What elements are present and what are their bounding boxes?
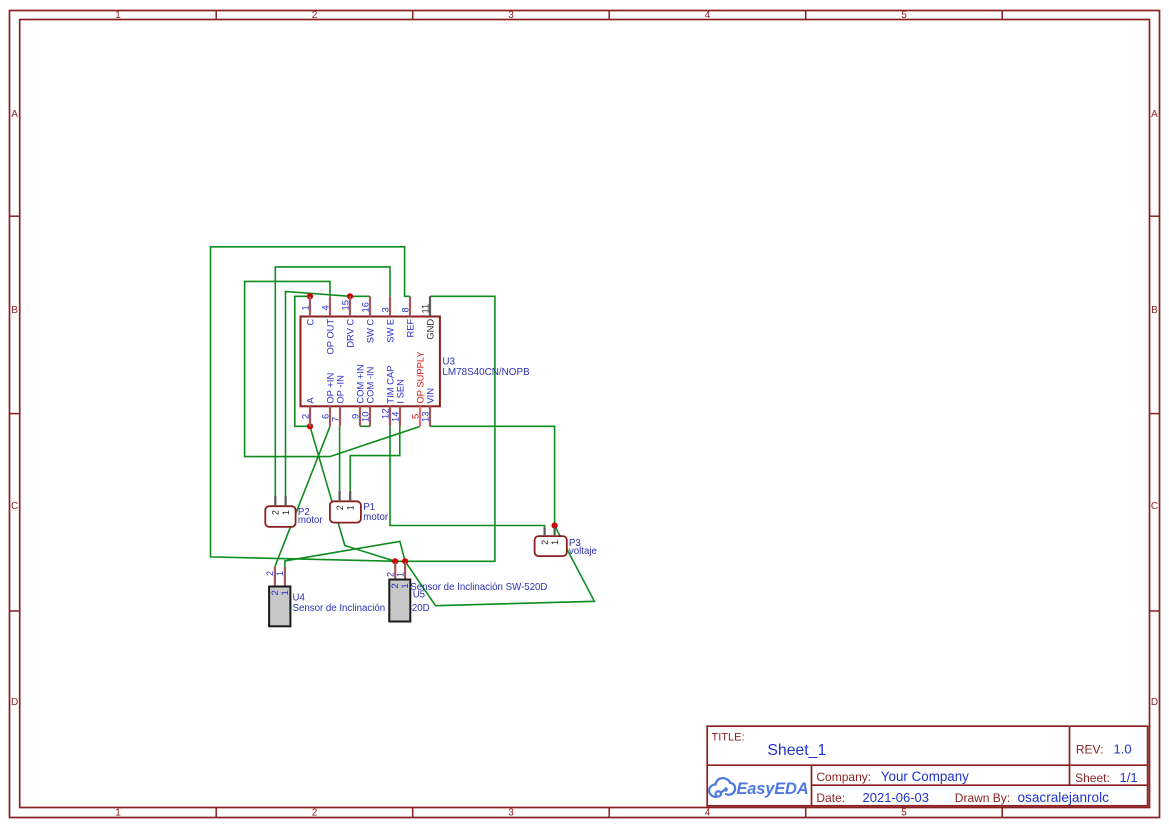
svg-text:5: 5 <box>901 10 907 21</box>
wire net pin8: big outer loop from pin 8 to U5 area <box>211 247 410 562</box>
svg-text:D: D <box>1151 697 1158 708</box>
P3 pin 2 stub <box>543 527 545 536</box>
svg-text:TITLE:: TITLE: <box>712 732 745 744</box>
frame row ticks right <box>1150 216 1160 611</box>
svg-text:U4: U4 <box>293 593 306 604</box>
svg-text:2: 2 <box>335 505 345 510</box>
U3 pin 10 stub (bottom) <box>369 406 371 426</box>
junction at U5 pin 1 <box>402 558 408 564</box>
sensor U5 pin 1 stub <box>404 562 406 579</box>
title block logo cell divider <box>811 765 813 806</box>
svg-text:motor: motor <box>298 515 324 526</box>
svg-text:osacralejanrolc: osacralejanrolc <box>1018 790 1110 805</box>
svg-text:1: 1 <box>280 590 291 595</box>
svg-text:4: 4 <box>705 808 711 819</box>
wire GND net: pin 11 right, down and left to U5 pin 1 junction <box>395 296 495 561</box>
wire net pin1: elbow at pin 1 and long run to pin 2 junction <box>295 296 310 426</box>
title block row divider 2 <box>812 784 1148 786</box>
svg-text:GND: GND <box>425 319 436 340</box>
svg-text:2: 2 <box>265 571 275 576</box>
wire net pin2: diagonal from pin 2 junction to U5 pin 2 junction <box>310 426 395 561</box>
svg-text:B: B <box>11 305 18 316</box>
svg-text:Sheet_1: Sheet_1 <box>767 742 826 759</box>
frame column ticks top <box>216 11 1002 20</box>
svg-text:3: 3 <box>508 10 514 21</box>
svg-text:EasyEDA: EasyEDA <box>737 780 809 798</box>
frame column numbers bottom <box>115 808 907 819</box>
op-amp U3 body LM78S40CN/NOPB <box>301 317 440 407</box>
svg-text:VIN: VIN <box>425 388 436 404</box>
U3 pin 3 stub (top) <box>389 296 391 316</box>
svg-text:1: 1 <box>550 540 560 545</box>
connector P1 body <box>330 501 361 522</box>
svg-text:Sheet:: Sheet: <box>1075 771 1110 785</box>
U3 pin 7 stub (bottom) <box>339 406 341 426</box>
svg-text:10: 10 <box>360 412 371 422</box>
wire U4 pin 1 tent to U5 pin 1 junction <box>285 541 405 566</box>
svg-text:U5: U5 <box>413 590 425 601</box>
wire pin12 to P3 pin 2 <box>390 426 545 527</box>
wire net pin3: loop from pin 3 to P2 pin 2 <box>275 267 390 496</box>
svg-text:A: A <box>11 109 18 120</box>
junction at P3 pin 1 <box>552 523 558 529</box>
svg-text:D: D <box>11 697 18 708</box>
junction at pin 1 <box>307 293 313 299</box>
connector P3 body <box>535 536 567 556</box>
svg-text:2: 2 <box>540 540 550 545</box>
svg-text:16: 16 <box>360 302 371 312</box>
svg-text:1/1: 1/1 <box>1120 770 1138 785</box>
sensor U4 pin 2 stub <box>274 567 276 587</box>
svg-text:1: 1 <box>395 572 405 577</box>
svg-text:A: A <box>1151 109 1158 120</box>
title block row divider 1 <box>707 764 1147 766</box>
svg-text:LM78S40CN/NOPB: LM78S40CN/NOPB <box>442 367 530 378</box>
sensor U4 body <box>269 587 290 627</box>
wire pin6 diagonal to U4 pin 2 <box>275 426 330 566</box>
svg-text:1: 1 <box>275 571 285 576</box>
U3 pin 1 stub (top) <box>309 296 311 316</box>
svg-text:C: C <box>305 319 316 326</box>
svg-text:2: 2 <box>312 10 318 21</box>
svg-text:Company:: Company: <box>816 770 871 784</box>
svg-text:Drawn By:: Drawn By: <box>955 791 1010 805</box>
P2 pin 2 stub <box>274 496 276 506</box>
svg-text:B: B <box>1151 305 1158 316</box>
svg-text:13: 13 <box>420 412 431 422</box>
svg-text:DRV C: DRV C <box>345 319 356 348</box>
svg-text:2: 2 <box>271 510 281 515</box>
svg-text:COM -IN: COM -IN <box>365 367 376 404</box>
svg-text:1: 1 <box>115 10 121 21</box>
svg-text:2: 2 <box>312 808 318 819</box>
svg-text:15: 15 <box>340 300 351 310</box>
svg-text:3: 3 <box>508 808 514 819</box>
wire pin7 to P1 pin 2 <box>339 426 341 491</box>
svg-text:voltaje: voltaje <box>569 546 597 557</box>
U3 pin 5 stub (bottom) <box>419 406 421 426</box>
U3 pin 2 stub (bottom) <box>309 406 311 426</box>
svg-text:1: 1 <box>115 808 121 819</box>
sensor U5 pin 2 stub <box>394 562 396 579</box>
frame row letters right <box>1151 109 1158 708</box>
svg-text:motor: motor <box>363 512 389 523</box>
U3 pin 15 stub (top) <box>349 296 351 316</box>
svg-text:SW C: SW C <box>365 319 376 344</box>
svg-text:1.0: 1.0 <box>1114 742 1132 757</box>
svg-text:1: 1 <box>281 510 291 515</box>
U3 pin 13 stub (bottom) <box>429 406 431 426</box>
wire pin14 to P1 pin 1 <box>350 426 400 491</box>
wire pin13 to P3 pin 1 junction <box>430 426 555 527</box>
svg-text:14: 14 <box>390 412 401 422</box>
EasyEDA logo cloud icon <box>709 778 735 797</box>
U3 pin 14 stub (bottom) <box>399 406 401 426</box>
frame row ticks left <box>10 216 20 611</box>
junction at pin 15 <box>347 293 353 299</box>
svg-text:A: A <box>305 397 316 404</box>
wire net pin4: loop from pin 4 down-left, across, diagonal up to pin 5 <box>245 281 420 456</box>
svg-text:3: 3 <box>380 307 391 312</box>
svg-text:OP OUT: OP OUT <box>325 319 336 355</box>
frame column ticks bottom <box>216 808 1002 818</box>
sensor U4 pin 1 stub <box>284 567 286 587</box>
U3 pin 9 stub (bottom) <box>359 406 361 426</box>
svg-text:Date:: Date: <box>816 791 845 805</box>
U3 pin 4 stub (top) <box>329 296 331 316</box>
connector P2 body <box>265 506 295 527</box>
junction at pin 2 <box>307 423 313 429</box>
frame column numbers top <box>115 10 907 21</box>
svg-text:2: 2 <box>385 572 395 577</box>
U3 pin 8 stub (top) <box>409 296 411 316</box>
P2 pin 1 stub <box>285 496 287 506</box>
U3 pin 11 stub (top) <box>429 296 431 316</box>
U3 pin 6 stub (bottom) <box>329 406 331 426</box>
svg-text:2: 2 <box>300 414 311 419</box>
svg-text:4: 4 <box>320 305 331 310</box>
sensor U5 body <box>389 580 410 622</box>
svg-text:11: 11 <box>420 304 431 314</box>
U3 pin 12 stub (bottom) <box>389 406 391 426</box>
title block outline <box>707 726 1147 806</box>
frame row letters left <box>11 109 18 708</box>
wire pin9 to pin10 <box>360 425 370 427</box>
svg-text:4: 4 <box>705 10 711 21</box>
P1 pin 1 stub <box>349 491 351 502</box>
svg-text:SW E: SW E <box>385 319 396 343</box>
svg-text:5: 5 <box>901 808 907 819</box>
svg-text:Your Company: Your Company <box>881 769 969 784</box>
svg-text:C: C <box>1151 501 1158 512</box>
svg-text:REV:: REV: <box>1076 743 1104 757</box>
svg-text:C: C <box>11 501 18 512</box>
svg-text:1: 1 <box>300 305 311 310</box>
svg-text:REF: REF <box>405 319 416 338</box>
svg-text:7: 7 <box>330 417 341 422</box>
title block right column divider <box>1069 726 1071 785</box>
svg-text:2021-06-03: 2021-06-03 <box>863 790 930 805</box>
wire net pin15: P2 pin 1 up, diagonal to pin 15, across to pin 16 <box>286 292 371 496</box>
svg-text:1: 1 <box>345 505 355 510</box>
svg-text:Sensor de Inclinación SW-520D: Sensor de Inclinación SW-520D <box>410 582 547 593</box>
svg-text:OP -IN: OP -IN <box>335 375 346 403</box>
wire loop U5 pin 1 junction to P3 pin 1 junction <box>405 526 594 606</box>
svg-text:I SEN: I SEN <box>395 379 406 404</box>
P1 pin 2 stub <box>339 491 341 502</box>
junction at U5 pin 2 <box>392 558 398 564</box>
U3 pin 16 stub (top) <box>369 296 371 316</box>
P3 pin 1 stub <box>553 527 555 536</box>
svg-text:8: 8 <box>400 307 411 312</box>
